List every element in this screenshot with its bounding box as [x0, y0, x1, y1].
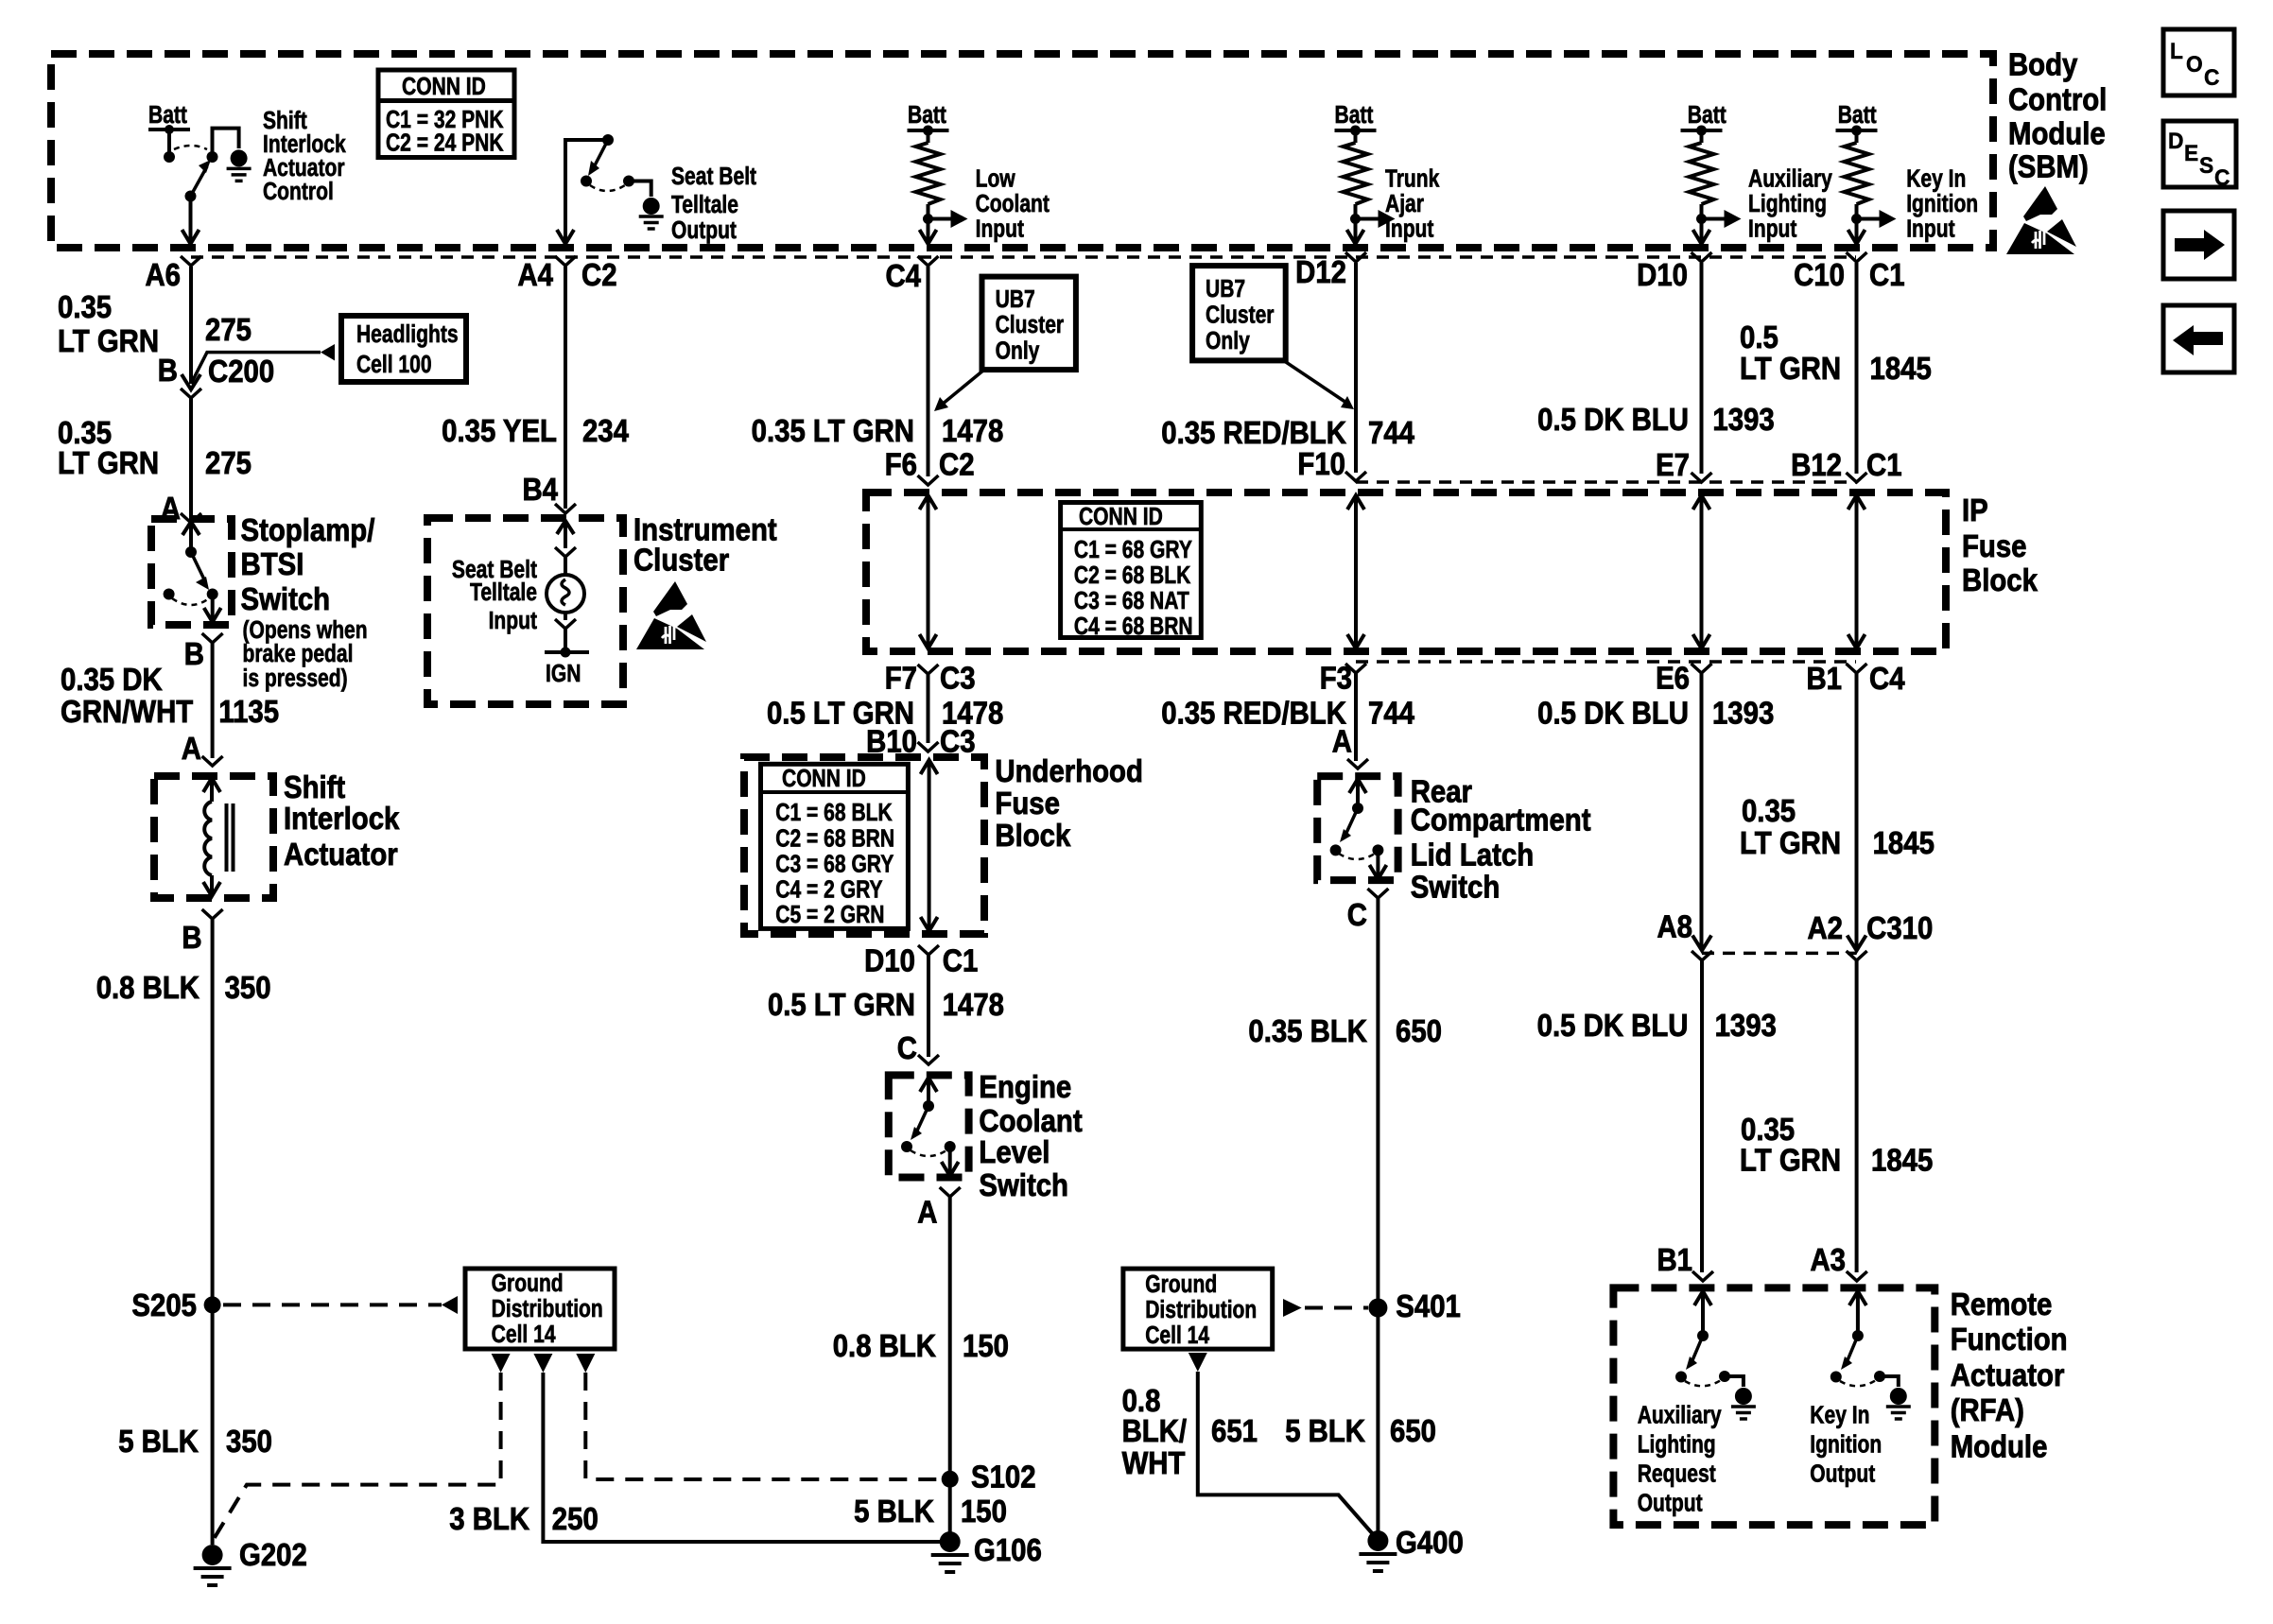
pin B shift interlock actuator — [202, 909, 223, 919]
svg-text:Input: Input — [489, 608, 538, 635]
svg-text:C: C — [2204, 65, 2220, 91]
svg-text:L: L — [2170, 39, 2183, 64]
svg-text:C2 = 68 BRN: C2 = 68 BRN — [775, 826, 894, 854]
lid latch switch glyph — [1330, 779, 1387, 879]
wire 5 through IP fuse block — [1693, 495, 1710, 648]
svg-text:S102: S102 — [971, 1460, 1036, 1494]
ground (key in ignition output) — [1886, 1388, 1911, 1419]
svg-text:D10: D10 — [1637, 257, 1688, 292]
reference triangle (ground distribution left) — [442, 1296, 458, 1314]
ESD sensitive device icon (BCM) — [2006, 186, 2076, 254]
arrow at BCM edge (A6) — [182, 230, 200, 244]
auxiliary lighting request switch glyph — [1675, 1291, 1744, 1387]
svg-text:1845: 1845 — [1871, 1143, 1933, 1178]
svg-text:Only: Only — [1206, 328, 1251, 355]
node Batt dot — [165, 125, 174, 134]
pin A6 connector — [181, 256, 201, 266]
svg-text:5 BLK: 5 BLK — [118, 1424, 199, 1459]
pin A3 RFA module — [1847, 1271, 1867, 1281]
ground (seat belt telltale output) — [639, 198, 664, 229]
svg-text:C: C — [1347, 897, 1367, 932]
pin A stoplamp switch — [181, 513, 201, 523]
svg-text:Ignition: Ignition — [1810, 1432, 1882, 1460]
left arrow box — [2163, 305, 2234, 372]
svg-text:5 BLK: 5 BLK — [1285, 1413, 1365, 1448]
svg-text:650: 650 — [1396, 1013, 1442, 1048]
pin C10 / C1 connector — [1847, 252, 1867, 262]
in-line connector C310 pin A2 — [1848, 936, 1866, 951]
solid ground wire 250 to G106 — [543, 1373, 949, 1542]
pin B1 RFA module — [1692, 1271, 1713, 1281]
seat belt telltale output switch (in BCM) — [557, 134, 651, 244]
svg-text:0.5 DK BLU: 0.5 DK BLU — [1537, 402, 1689, 437]
svg-text:BLK/: BLK/ — [1122, 1413, 1188, 1448]
svg-text:0.8 BLK: 0.8 BLK — [833, 1328, 937, 1363]
svg-text:C: C — [2214, 165, 2230, 191]
svg-text:Engine: Engine — [979, 1069, 1071, 1104]
svg-text:Stoplamp/: Stoplamp/ — [241, 512, 375, 547]
svg-text:(RFA): (RFA) — [1951, 1392, 2024, 1427]
wire A4 to instrument cluster — [564, 267, 567, 509]
svg-text:234: 234 — [582, 413, 630, 448]
wire F7 to underhood fuse block — [927, 674, 930, 743]
wire 4 through IP fuse block — [1347, 495, 1364, 648]
svg-text:C4: C4 — [1869, 661, 1905, 696]
svg-text:744: 744 — [1368, 415, 1415, 450]
label Engine Coolant Level Switch — [979, 1069, 1083, 1202]
splice S401 — [1368, 1299, 1387, 1318]
svg-text:Headlights: Headlights — [356, 321, 459, 349]
svg-text:Ignition: Ignition — [1906, 191, 1978, 218]
ground (auxiliary lighting request) — [1731, 1388, 1756, 1419]
svg-text:B1: B1 — [1806, 661, 1842, 696]
svg-text:1845: 1845 — [1869, 351, 1931, 386]
svg-text:Level: Level — [979, 1134, 1050, 1169]
svg-text:O: O — [2186, 52, 2203, 78]
svg-text:G202: G202 — [239, 1537, 307, 1572]
svg-text:E: E — [2184, 141, 2198, 166]
svg-text:CONN ID: CONN ID — [1079, 504, 1163, 531]
svg-text:Key In: Key In — [1810, 1403, 1869, 1430]
wire A to G106 — [948, 1197, 952, 1542]
svg-text:0.5 LT GRN: 0.5 LT GRN — [768, 987, 915, 1022]
svg-text:A: A — [1332, 724, 1352, 759]
wire C to G400 — [1376, 898, 1379, 1541]
svg-text:Actuator: Actuator — [1951, 1357, 2065, 1392]
svg-text:350: 350 — [226, 1424, 272, 1459]
Underhood Fuse Block dashed box — [744, 757, 984, 934]
svg-text:C4 = 68 BRN: C4 = 68 BRN — [1074, 613, 1193, 641]
label Remote Function Actuator (RFA) Module — [1951, 1287, 2068, 1463]
svg-text:BTSI: BTSI — [241, 546, 304, 581]
svg-text:D: D — [2168, 129, 2184, 154]
label Auxiliary Lighting Request Output — [1638, 1403, 1723, 1518]
Rear Compartment Lid Latch Switch dashed box — [1317, 776, 1397, 880]
svg-text:C4 = 2 GRY: C4 = 2 GRY — [775, 877, 882, 905]
pin E6 connector — [1692, 664, 1712, 673]
svg-text:Switch: Switch — [1411, 870, 1501, 905]
pin F10 connector — [1345, 472, 1366, 481]
svg-text:B: B — [158, 353, 178, 388]
wire C10 to IP fuse block — [1855, 263, 1859, 474]
svg-text:Batt: Batt — [908, 102, 946, 130]
svg-text:F7: F7 — [885, 661, 917, 696]
label Key In Ignition Input — [1906, 166, 1978, 244]
svg-text:350: 350 — [225, 970, 271, 1005]
svg-text:C: C — [897, 1030, 917, 1065]
wire F3 to lid latch switch — [1354, 673, 1358, 761]
ground (shift interlock actuator control) — [227, 149, 252, 181]
Stoplamp/BTSI Switch dashed box — [151, 519, 232, 625]
reference triangle (ground distribution right) — [1283, 1299, 1302, 1317]
svg-text:F6: F6 — [885, 447, 917, 482]
svg-text:C1 = 68 GRY: C1 = 68 GRY — [1074, 537, 1192, 564]
svg-text:Lighting: Lighting — [1638, 1432, 1716, 1460]
Instrument Cluster dashed box — [427, 518, 623, 704]
svg-text:5 BLK: 5 BLK — [854, 1494, 934, 1529]
pin D10 connector (BCM) — [1692, 252, 1712, 262]
svg-text:Block: Block — [995, 818, 1071, 853]
svg-text:1478: 1478 — [942, 413, 1003, 448]
IP face dashed line top — [1356, 480, 1856, 484]
wire C4 to IP fuse block — [927, 267, 930, 476]
pin B1 / C4 connector — [1847, 664, 1867, 673]
svg-text:650: 650 — [1390, 1413, 1436, 1448]
engine coolant level switch glyph — [901, 1078, 959, 1176]
wire D10 to coolant level switch — [927, 955, 930, 1057]
svg-text:Control: Control — [263, 179, 334, 206]
svg-text:Cluster: Cluster — [996, 312, 1065, 339]
svg-text:Ground: Ground — [1145, 1271, 1217, 1299]
svg-text:0.5 DK BLU: 0.5 DK BLU — [1537, 696, 1689, 731]
stoplamp switch glyph — [164, 522, 221, 622]
in-line connector C200 pin B — [182, 374, 200, 389]
Ground Distribution Cell 14 box (left) — [465, 1269, 615, 1349]
pin F6 / C2 connector — [918, 475, 939, 485]
svg-text:B4: B4 — [522, 472, 558, 507]
pin F7 / C3 connector — [918, 665, 939, 674]
svg-text:WHT: WHT — [1122, 1445, 1186, 1480]
svg-text:Batt: Batt — [1688, 102, 1726, 130]
svg-text:1478: 1478 — [943, 987, 1004, 1022]
battery resistor feed (key in ignition input) — [1836, 126, 1897, 245]
svg-text:Switch: Switch — [241, 581, 331, 616]
svg-text:Input: Input — [976, 216, 1025, 244]
label Underhood Fuse Block — [995, 753, 1143, 853]
pin A shift interlock actuator — [202, 756, 223, 766]
svg-text:IGN: IGN — [546, 661, 581, 688]
IP Fuse Block dashed box — [866, 492, 1946, 651]
wire D10 to IP fuse block — [1700, 263, 1704, 474]
ground G106 — [931, 1531, 969, 1572]
reference triangle (headlights) — [321, 344, 335, 361]
svg-text:Function: Function — [1951, 1322, 2068, 1356]
label IP Fuse Block — [1962, 492, 2039, 597]
svg-text:Lid Latch: Lid Latch — [1411, 838, 1534, 872]
splice S205 — [204, 1296, 221, 1313]
svg-text:Ground: Ground — [492, 1270, 564, 1298]
svg-text:150: 150 — [963, 1328, 1009, 1363]
IP face dashed line bottom — [1356, 660, 1856, 664]
wire 3 through IP fuse block — [920, 495, 937, 648]
pin D10 / C1 connector — [918, 945, 939, 955]
svg-text:Seat Belt: Seat Belt — [671, 164, 756, 191]
svg-text:C310: C310 — [1866, 910, 1933, 945]
UB7 leader arrow (left) — [942, 370, 984, 405]
svg-text:Cell 14: Cell 14 — [1145, 1322, 1210, 1350]
wire B1 to C310 — [1855, 673, 1859, 948]
ground G400 — [1359, 1530, 1397, 1571]
svg-text:LT GRN: LT GRN — [1740, 1143, 1841, 1178]
ESD sensitive device icon (instrument cluster) — [636, 581, 706, 649]
Remote Function Actuator dashed box — [1613, 1287, 1935, 1525]
svg-text:C4: C4 — [885, 258, 921, 293]
svg-text:Actuator: Actuator — [284, 837, 398, 872]
svg-text:A8: A8 — [1657, 909, 1692, 944]
switch throw dashed arc — [174, 146, 207, 149]
label 0.8 BLK/WHT 651 — [1122, 1383, 1258, 1480]
pin C lid latch switch — [1367, 889, 1388, 898]
svg-text:0.35 DK: 0.35 DK — [61, 662, 163, 697]
battery resistor feed (low coolant input) — [908, 126, 968, 245]
svg-text:Control: Control — [2008, 82, 2107, 117]
DESC box — [2163, 121, 2236, 191]
svg-text:Auxiliary: Auxiliary — [1748, 166, 1833, 194]
Headlights Cell 100 box — [341, 316, 466, 382]
svg-text:250: 250 — [552, 1501, 599, 1536]
wire 6 through IP fuse block — [1848, 495, 1865, 648]
seat belt telltale lamp symbol — [545, 521, 589, 688]
svg-text:Body: Body — [2008, 47, 2078, 82]
svg-text:Cell 14: Cell 14 — [492, 1322, 557, 1349]
svg-text:1845: 1845 — [1873, 825, 1935, 860]
pin B10 / C3 connector — [918, 742, 939, 752]
svg-text:Output: Output — [1638, 1491, 1703, 1518]
svg-text:0.8 BLK: 0.8 BLK — [96, 970, 200, 1005]
svg-text:B1: B1 — [1657, 1242, 1692, 1277]
svg-text:LT GRN: LT GRN — [1740, 351, 1841, 386]
svg-text:Fuse: Fuse — [1962, 528, 2027, 563]
CONN ID table (underhood fuse block) — [761, 764, 909, 928]
dashed reference wire to S401 — [1305, 1306, 1368, 1310]
battery resistor feed (auxiliary lighting input) — [1681, 126, 1742, 245]
right arrow box — [2163, 211, 2234, 279]
svg-text:UB7: UB7 — [1206, 276, 1245, 303]
shift interlock actuator coil — [203, 778, 234, 896]
BCM connector face dashed line — [191, 255, 1856, 259]
svg-text:1393: 1393 — [1715, 1008, 1777, 1043]
label Auxiliary Lighting Input — [1748, 166, 1833, 244]
svg-text:0.5 DK BLU: 0.5 DK BLU — [1537, 1008, 1689, 1043]
svg-text:0.35: 0.35 — [1741, 1112, 1795, 1147]
svg-text:Shift: Shift — [284, 769, 346, 804]
Shift Interlock Actuator dashed box — [154, 776, 273, 898]
wire shift actuator to G202 — [211, 919, 215, 1545]
svg-text:0.35: 0.35 — [58, 289, 112, 324]
wire pivot to BCM edge — [189, 197, 193, 245]
label Shift Interlock Actuator Control — [263, 108, 346, 206]
svg-text:0.5: 0.5 — [1740, 320, 1778, 354]
branch wire to Headlights cell — [191, 353, 321, 384]
svg-text:0.35: 0.35 — [1742, 793, 1796, 828]
svg-text:Telltale: Telltale — [470, 579, 537, 607]
ground distribution output triangle (651) — [1189, 1353, 1207, 1372]
label Seat Belt Telltale Input — [452, 557, 537, 635]
svg-text:UB7: UB7 — [996, 286, 1035, 314]
svg-text:Cluster: Cluster — [1206, 302, 1275, 330]
svg-text:S205: S205 — [131, 1287, 197, 1322]
svg-text:Only: Only — [996, 338, 1041, 366]
svg-text:A6: A6 — [145, 257, 181, 292]
svg-text:C10: C10 — [1794, 257, 1845, 292]
Ground Distribution Cell 14 box (right) — [1123, 1269, 1273, 1349]
pin C4 connector — [918, 256, 939, 266]
svg-text:0.35 BLK: 0.35 BLK — [1248, 1013, 1367, 1048]
pin D12 connector — [1345, 252, 1366, 262]
svg-text:Output: Output — [671, 217, 737, 245]
dashed reference wire S205 to ground distribution — [223, 1303, 442, 1306]
svg-text:C2 = 68 BLK: C2 = 68 BLK — [1074, 562, 1190, 590]
svg-text:C1 = 68 BLK: C1 = 68 BLK — [775, 800, 892, 827]
svg-text:Distribution: Distribution — [1145, 1297, 1257, 1324]
svg-text:0.35 RED/BLK: 0.35 RED/BLK — [1161, 415, 1346, 450]
svg-text:G400: G400 — [1396, 1525, 1464, 1560]
svg-text:CONN ID: CONN ID — [782, 766, 866, 793]
svg-text:D12: D12 — [1295, 254, 1346, 289]
svg-text:Compartment: Compartment — [1411, 803, 1591, 838]
label Low Coolant Input — [976, 166, 1050, 244]
pin C coolant level switch — [918, 1055, 939, 1064]
svg-text:C2: C2 — [939, 447, 975, 482]
svg-text:Output: Output — [1810, 1461, 1875, 1489]
svg-text:S401: S401 — [1396, 1288, 1461, 1323]
svg-text:1393: 1393 — [1712, 696, 1774, 731]
wire E6 to C310 — [1700, 673, 1704, 948]
svg-text:Request: Request — [1638, 1461, 1716, 1489]
svg-text:is pressed): is pressed) — [243, 665, 348, 693]
svg-text:Switch: Switch — [979, 1167, 1068, 1202]
svg-text:Distribution: Distribution — [492, 1296, 603, 1323]
ground wire 651 to G400 — [1198, 1372, 1373, 1534]
svg-text:Trunk: Trunk — [1385, 166, 1440, 194]
svg-text:Batt: Batt — [1838, 102, 1877, 130]
C310 connector face dashed line — [1702, 952, 1857, 956]
svg-text:Auxiliary: Auxiliary — [1638, 1403, 1723, 1430]
svg-text:E6: E6 — [1656, 661, 1690, 696]
Engine Coolant Level Switch dashed box — [889, 1075, 969, 1177]
svg-text:0.35 RED/BLK: 0.35 RED/BLK — [1161, 696, 1346, 731]
svg-text:F10: F10 — [1297, 446, 1345, 481]
svg-text:LT GRN: LT GRN — [58, 323, 159, 358]
svg-text:C5 = 2 GRN: C5 = 2 GRN — [775, 902, 884, 929]
svg-text:0.35 YEL: 0.35 YEL — [442, 413, 557, 448]
svg-text:C1: C1 — [1866, 447, 1902, 482]
pin B12 / C1 connector — [1847, 473, 1867, 482]
svg-text:1135: 1135 — [218, 694, 279, 729]
svg-text:C2: C2 — [581, 257, 617, 292]
pin E7 connector — [1692, 473, 1712, 482]
svg-text:C3 = 68 NAT: C3 = 68 NAT — [1074, 588, 1189, 615]
svg-text:651: 651 — [1211, 1413, 1258, 1448]
svg-text:C3 = 68 GRY: C3 = 68 GRY — [775, 852, 894, 879]
label Seat Belt Telltale Output — [671, 164, 756, 245]
svg-text:275: 275 — [205, 312, 252, 347]
wire Batt to switch contact — [167, 130, 171, 157]
svg-text:C3: C3 — [940, 661, 976, 696]
svg-text:C2 = 24 PNK: C2 = 24 PNK — [386, 130, 504, 158]
wire stoplamp to shift actuator — [211, 643, 215, 758]
Batt feed line — [148, 128, 190, 131]
svg-text:Key In: Key In — [1906, 166, 1966, 194]
svg-text:Block: Block — [1962, 562, 2039, 597]
svg-text:GRN/WHT: GRN/WHT — [61, 694, 193, 729]
label Key In Ignition Output — [1810, 1403, 1882, 1489]
label Rear Compartment Lid Latch Switch — [1411, 774, 1591, 905]
switch arm (shift interlock actuator control) — [185, 191, 197, 202]
svg-text:A: A — [917, 1195, 937, 1230]
svg-text:Input: Input — [1748, 216, 1797, 244]
svg-text:A4: A4 — [517, 257, 553, 292]
svg-text:S: S — [2199, 153, 2213, 179]
svg-text:Telltale: Telltale — [671, 192, 738, 219]
dashed ground wire to S102 — [585, 1373, 939, 1479]
svg-text:G106: G106 — [974, 1532, 1042, 1567]
svg-text:C1: C1 — [943, 943, 979, 978]
ground distribution output triangles — [492, 1354, 511, 1373]
svg-text:F3: F3 — [1320, 661, 1352, 696]
ground G202 — [194, 1545, 232, 1585]
pin B stoplamp switch — [202, 633, 223, 643]
UB7 leader arrow (right) — [1283, 360, 1346, 403]
dashed ground wire to G202 — [214, 1373, 501, 1539]
battery resistor feed (trunk ajar input) — [1335, 126, 1396, 245]
svg-text:Input: Input — [1906, 216, 1955, 244]
wire D12 to IP fuse block — [1354, 263, 1358, 473]
LOC box — [2163, 29, 2234, 95]
CONN ID table (IP fuse block) — [1061, 503, 1202, 641]
pin A coolant level switch — [940, 1187, 961, 1197]
svg-text:Lighting: Lighting — [1748, 191, 1827, 218]
svg-text:150: 150 — [961, 1494, 1007, 1529]
pin B4 instrument cluster — [555, 504, 576, 513]
svg-text:Coolant: Coolant — [976, 191, 1050, 218]
pin A4 / C2 connector — [555, 256, 576, 266]
pin F3 connector — [1345, 664, 1366, 673]
svg-text:Ajar: Ajar — [1385, 191, 1424, 218]
svg-text:D10: D10 — [864, 943, 915, 978]
svg-text:A: A — [182, 731, 201, 766]
pin A lid latch switch — [1347, 759, 1368, 769]
svg-text:Low: Low — [976, 166, 1016, 194]
svg-text:IP: IP — [1962, 492, 1988, 527]
svg-text:LT GRN: LT GRN — [1740, 825, 1841, 860]
key in ignition output switch glyph — [1831, 1291, 1899, 1387]
label Body Control Module (SBM) — [2008, 47, 2107, 184]
svg-text:Underhood: Underhood — [995, 753, 1143, 788]
svg-text:1393: 1393 — [1712, 402, 1774, 437]
wire C200 to stoplamp switch — [189, 398, 193, 515]
svg-text:Input: Input — [1385, 216, 1434, 244]
svg-text:brake pedal: brake pedal — [243, 641, 354, 668]
svg-text:B: B — [182, 920, 201, 955]
svg-text:Interlock: Interlock — [284, 801, 400, 836]
svg-text:Cell 100: Cell 100 — [356, 352, 432, 379]
svg-text:LT GRN: LT GRN — [58, 445, 159, 480]
CONN ID table (BCM) — [378, 70, 514, 158]
svg-text:Fuse: Fuse — [995, 786, 1060, 821]
svg-text:Module: Module — [1951, 1429, 2048, 1464]
svg-text:E7: E7 — [1656, 447, 1690, 482]
